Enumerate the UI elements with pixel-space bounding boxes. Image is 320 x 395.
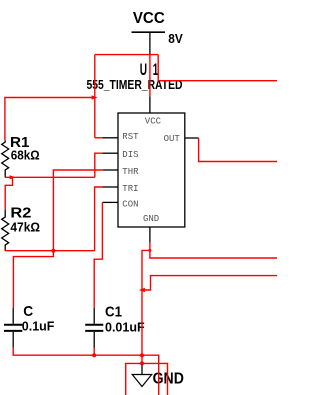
wire TRI — [95, 187, 103, 251]
wire CON to C1 top — [94, 202, 102, 307]
wire to C top — [13, 251, 53, 308]
junction at RST/R1 branch — [92, 95, 98, 99]
resistor R2 — [2, 209, 9, 251]
svg-text:DIS: DIS — [122, 150, 138, 160]
pin stub THR — [103, 169, 118, 171]
svg-text:THR: THR — [122, 167, 139, 177]
svg-text:0.1uF: 0.1uF — [22, 319, 55, 333]
wire RST — [95, 137, 103, 139]
svg-text:TRI: TRI — [122, 184, 138, 194]
svg-text:C1: C1 — [105, 304, 122, 321]
pin stub OUT — [185, 137, 199, 139]
wire C1 bottom — [93, 348, 95, 355]
junction THR/R2 — [51, 249, 55, 253]
svg-text:GND: GND — [143, 214, 159, 224]
wire bottom rail second — [126, 363, 168, 395]
wire VCC down to RST — [94, 55, 96, 138]
wire VCC net to right edge — [158, 55, 277, 81]
svg-text:R2: R2 — [10, 205, 31, 222]
wire GND net to right edge lower — [142, 276, 277, 290]
pin stub DIS — [103, 152, 119, 154]
pin stub CON — [102, 201, 118, 203]
pin stub VCC — [149, 96, 151, 113]
wire DIS to R1 bottom — [5, 176, 95, 178]
capacitor C — [4, 308, 22, 348]
wire VCC to U1 VCC pin — [149, 55, 151, 97]
wire DIS — [95, 153, 103, 177]
pin stub TRI — [103, 186, 119, 188]
junction ground rail 1 — [140, 353, 144, 357]
op-amp U1 555 timer box — [118, 113, 185, 227]
wire GND net to right edge upper — [150, 250, 277, 258]
svg-text:68kΩ: 68kΩ — [11, 148, 40, 162]
svg-text:C: C — [23, 303, 33, 320]
svg-text:555_TIMER_RATED: 555_TIMER_RATED — [87, 77, 183, 92]
junction at R1 bottom — [10, 175, 16, 179]
wire OUT to right edge — [199, 138, 277, 162]
wire THR — [53, 170, 103, 251]
resistor R1 — [2, 140, 9, 177]
junction on ground wire — [139, 288, 145, 292]
junction C1 bottom — [92, 353, 96, 357]
svg-text:GND: GND — [153, 370, 184, 387]
svg-text:8V: 8V — [168, 32, 183, 46]
wire to R2 top — [5, 177, 12, 209]
junction GND pin — [148, 249, 151, 252]
wire C bottom rail — [13, 348, 159, 395]
wire R2 bottom — [5, 250, 95, 252]
node VCC symbol — [132, 10, 166, 54]
wire VCC branch to R1 top — [5, 98, 95, 141]
wire VCC net horizontal — [95, 54, 158, 56]
capacitor C1 — [85, 308, 103, 348]
pin stub GND — [149, 227, 151, 243]
wire GND pin down — [149, 243, 151, 251]
svg-text:VCC: VCC — [133, 10, 165, 27]
wire GND pin to ground symbol — [142, 250, 150, 365]
svg-text:0.01uF: 0.01uF — [105, 320, 145, 334]
ground symbol — [132, 365, 152, 387]
svg-text:OUT: OUT — [164, 134, 181, 144]
svg-text:RST: RST — [122, 132, 139, 142]
svg-text:VCC: VCC — [145, 117, 162, 127]
svg-text:47kΩ: 47kΩ — [10, 221, 40, 235]
junction ground rail 2 — [140, 361, 144, 365]
pin stub RST — [103, 137, 119, 139]
svg-text:CON: CON — [122, 199, 138, 209]
